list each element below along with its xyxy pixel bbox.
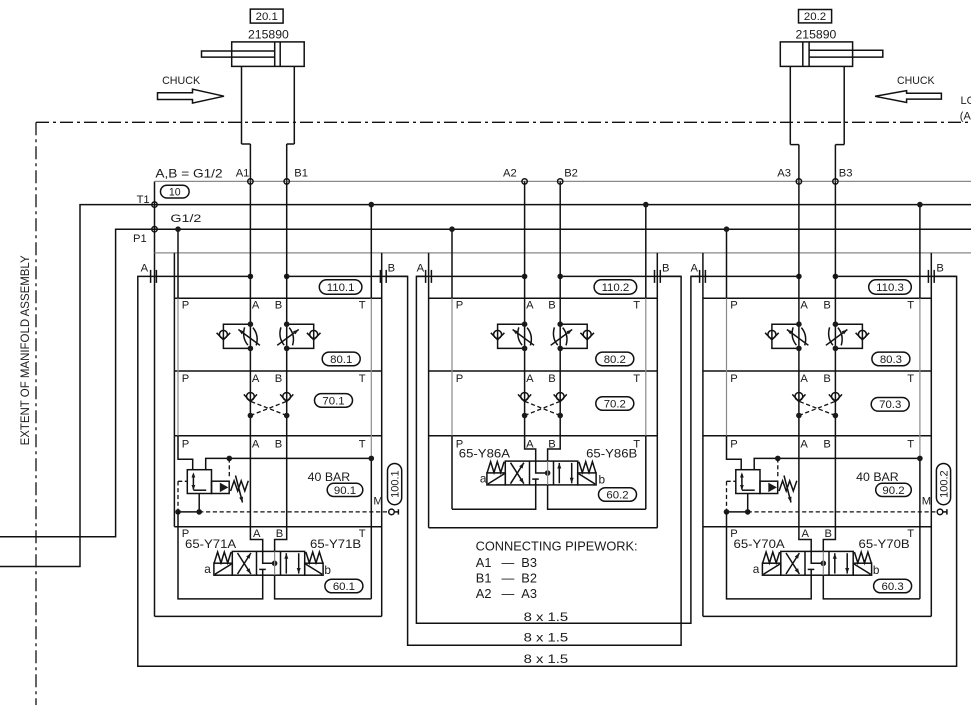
centre position blocked P port (532, 478, 539, 480)
gallery T1 (155, 204, 971, 206)
valve position boxes (232, 551, 304, 575)
svg-text:B3: B3 (521, 555, 537, 570)
pressure reducing valve body (187, 470, 211, 494)
solenoid 65-Y86B box (578, 473, 596, 485)
svg-text:100.2: 100.2 (938, 470, 950, 498)
pipe P1 to power unit (0, 229, 155, 537)
cylinder 20.2 mounting block (789, 66, 791, 144)
svg-text:80.2: 80.2 (604, 354, 626, 366)
cylinder 20.2 body (780, 42, 852, 67)
svg-text:G1/2: G1/2 (170, 213, 201, 225)
gallery B line block 2 (559, 181, 561, 435)
drain line to T gallery (206, 458, 372, 469)
svg-text:A2: A2 (503, 167, 517, 179)
svg-text:A: A (691, 262, 699, 274)
node A at block 2 (522, 274, 528, 280)
svg-text:8 x 1.5: 8 x 1.5 (524, 652, 569, 666)
svg-text:a: a (480, 472, 487, 486)
pilot operated check valve pair (792, 393, 842, 419)
svg-text:B: B (823, 373, 830, 385)
svg-text:100.1: 100.1 (390, 470, 402, 498)
svg-text:EXTENT OF MANIFOLD ASSEMBLY: EXTENT OF MANIFOLD ASSEMBLY (18, 255, 32, 445)
centre position blocked P port (808, 568, 815, 570)
svg-text:B: B (662, 262, 669, 274)
gallery T drop block 2 (645, 205, 647, 299)
manifold block 10 outline left edge (154, 181, 156, 616)
svg-text:A: A (252, 373, 260, 385)
solenoid 65-Y86A return spring (487, 462, 504, 473)
pilot line dashed cross (799, 401, 836, 415)
block 3 side port line A (691, 275, 799, 277)
gallery T inside block 1 (thin) (370, 298, 372, 458)
gallery T inside block 2 (thin) (645, 298, 647, 436)
supply jog from P gallery (178, 436, 193, 470)
valve block 110.2 enclosure (429, 253, 658, 528)
gallery A line block 1 (249, 181, 251, 526)
outlet node to P continuation (727, 511, 748, 513)
pilot line dashed cross (525, 401, 561, 415)
svg-text:b: b (599, 473, 606, 487)
svg-text:T: T (359, 373, 366, 385)
block 110.3 top edge (703, 297, 931, 299)
svg-text:A1: A1 (476, 555, 492, 570)
svg-text:B2: B2 (564, 167, 578, 179)
svg-text:110.1: 110.1 (327, 282, 355, 294)
svg-text:—: — (502, 586, 515, 601)
pilot line dashed cross (250, 401, 286, 415)
P supply pipe to valve (727, 527, 812, 599)
svg-text:60.1: 60.1 (333, 581, 355, 593)
pipe cylinder 20.2 port A to A3 (798, 145, 800, 182)
solenoid 65-Y71A return spring (214, 552, 231, 563)
item bubble 60.1 (325, 579, 363, 593)
block 3 wall coupling ticks B (927, 270, 929, 283)
item bubble 70.2 (596, 397, 634, 411)
solenoid 65-Y71B box (305, 563, 323, 575)
svg-text:M: M (373, 496, 382, 508)
svg-text:8 x 1.5: 8 x 1.5 (524, 631, 569, 645)
svg-text:B: B (823, 438, 830, 450)
svg-text:A: A (800, 373, 808, 385)
adjustable spring (779, 481, 797, 491)
solenoid 65-Y86A box (487, 473, 505, 485)
manifold face line ports A,B (155, 180, 971, 182)
svg-text:40 BAR: 40 BAR (856, 470, 899, 484)
svg-text:A: A (800, 300, 808, 312)
svg-text:B: B (275, 438, 282, 450)
svg-text:40 BAR: 40 BAR (308, 470, 351, 484)
svg-text:B1: B1 (476, 571, 492, 586)
pipe T1 to power unit (0, 205, 155, 567)
cylinder 20.1 rod (202, 51, 275, 57)
cylinder 20.2 piston (802, 42, 804, 67)
svg-text:B: B (275, 300, 282, 312)
solenoid 65-Y71A box (214, 563, 232, 575)
A neck jog to valve (799, 527, 811, 552)
svg-text:LOC: LOC (961, 95, 971, 107)
machine centreline horizontal (dash-dot) (36, 121, 971, 123)
svg-text:P: P (182, 438, 189, 450)
pilot sensing dashed line (727, 480, 736, 482)
pilot sensing dashed line (178, 480, 187, 482)
cylinder 20.2 rod (809, 50, 883, 57)
svg-text:B: B (548, 300, 555, 312)
item bubble 10 (161, 185, 190, 198)
gallery P inside block 2 (thin) (451, 298, 453, 436)
svg-text:T: T (633, 300, 640, 312)
position a crossed flow arrows (238, 553, 251, 574)
T return pipe from valve (275, 575, 372, 599)
svg-text:215890: 215890 (796, 27, 837, 41)
cylinder 20.1 body (232, 42, 305, 67)
pilot operated check valve pair (244, 393, 293, 419)
svg-text:B: B (276, 528, 283, 540)
cylinder 20.1 piston (274, 42, 276, 67)
block 110.3 section dividers (703, 370, 931, 372)
drain line to T gallery (754, 458, 920, 469)
P supply pipe to valve 60.2 (452, 479, 536, 509)
port M symbol (389, 509, 395, 515)
gallery P drop block 1 (177, 229, 179, 298)
node B at block 2 (557, 274, 563, 280)
reduced pressure outlet (198, 494, 200, 512)
centre position connections (263, 551, 275, 563)
gallery T inside block 3 (thin) (919, 298, 921, 458)
svg-text:80.3: 80.3 (880, 354, 902, 366)
svg-text:A1: A1 (236, 167, 250, 179)
position b parallel flow arrows (834, 553, 836, 573)
node A at block 3 (796, 274, 802, 280)
svg-text:110.3: 110.3 (876, 282, 904, 294)
svg-text:80.1: 80.1 (330, 354, 352, 366)
item bubble 60.3 (874, 579, 912, 593)
svg-text:B: B (388, 262, 395, 274)
gallery P1 (155, 228, 971, 230)
measuring line dashed to port M (748, 511, 938, 513)
svg-text:T: T (907, 438, 914, 450)
adjustable spring (231, 481, 249, 491)
pipe A2 to A3 (8 x 1.5) (416, 276, 699, 623)
svg-text:T: T (359, 438, 366, 450)
arrow chuck direction left cylinder (158, 89, 225, 103)
item bubble 90.1 (327, 483, 363, 496)
valve block 110.3 enclosure (703, 253, 931, 617)
item bubble 80.3 (872, 352, 910, 366)
svg-text:A: A (802, 528, 810, 540)
svg-text:CHUCK: CHUCK (162, 75, 201, 87)
block 3 wall coupling ticks A (699, 270, 701, 283)
position a crossed flow arrows (511, 463, 524, 484)
pipe cylinder 20.1 port A to A1 (249, 144, 251, 181)
manifold bottom edge (155, 615, 382, 617)
item bubble 110.3 (869, 280, 912, 294)
svg-text:10: 10 (169, 187, 181, 199)
svg-text:215890: 215890 (248, 27, 289, 41)
flow control with bypass check on line x=560.2 (551, 321, 594, 351)
svg-text:A: A (526, 300, 534, 312)
pilot box with solid triangle (212, 481, 230, 493)
solenoid 65-Y70A return spring (763, 552, 780, 563)
svg-text:65-Y70B: 65-Y70B (859, 537, 910, 551)
svg-text:65-Y86A: 65-Y86A (459, 447, 510, 461)
valve block 110.1 enclosure (174, 253, 381, 617)
svg-text:90.2: 90.2 (882, 485, 904, 497)
svg-text:A: A (141, 262, 149, 274)
A neck jog to valve 60.2 (525, 436, 536, 461)
flow control with bypass check on line x=835.4 (826, 321, 869, 351)
svg-text:A3: A3 (521, 586, 537, 601)
svg-text:B: B (275, 373, 282, 385)
svg-text:A3: A3 (777, 167, 791, 179)
svg-text:65-Y70A: 65-Y70A (734, 537, 785, 551)
svg-text:P: P (456, 373, 463, 385)
svg-text:8 x 1.5: 8 x 1.5 (524, 610, 569, 624)
T return pipe from valve (823, 575, 920, 599)
block 1 side port line B (287, 275, 408, 277)
svg-text:P: P (456, 300, 463, 312)
cylinder 20.1 mounting block (241, 66, 243, 144)
block 2 wall coupling ticks B (654, 270, 656, 283)
item bubble 70.1 (315, 394, 353, 408)
gallery A line block 2 (524, 181, 526, 435)
measuring line dashed to port M (199, 511, 389, 513)
item bubble 90.2 (876, 483, 912, 496)
svg-text:90.1: 90.1 (334, 485, 356, 497)
svg-text:T: T (907, 300, 914, 312)
block 1 side port line A (151, 275, 250, 277)
svg-text:B: B (823, 300, 830, 312)
pilot operated check valve pair (518, 393, 567, 419)
pilot box with solid triangle (760, 481, 778, 493)
svg-text:(AC: (AC (960, 110, 971, 122)
solenoid 65-Y70A box (762, 563, 780, 575)
flow control with bypass check on line x=286.7 (277, 321, 320, 351)
gallery T drop block 3 (919, 205, 921, 299)
svg-text:T: T (359, 300, 366, 312)
spring adjustment arrow (236, 476, 243, 503)
pressure reducing valve body (736, 470, 760, 494)
svg-text:T: T (907, 373, 914, 385)
position a crossed flow arrows (786, 553, 799, 574)
svg-text:M: M (922, 496, 931, 508)
valve position boxes (505, 461, 577, 485)
svg-text:20.2: 20.2 (804, 11, 826, 23)
svg-text:P1: P1 (133, 233, 147, 245)
item bubble 80.1 (322, 352, 360, 366)
centre position blocked P port (259, 568, 266, 570)
item bubble 60.2 (599, 488, 637, 502)
svg-text:A: A (417, 262, 425, 274)
svg-text:B: B (936, 262, 943, 274)
flow control with bypass check on line x=250.4 (217, 321, 260, 351)
gallery P drop block 3 (726, 229, 728, 298)
svg-text:110.2: 110.2 (602, 282, 630, 294)
port circle B2 (558, 179, 563, 184)
solenoid 65-Y71B return spring (306, 552, 323, 563)
P supply pipe to valve (178, 527, 263, 599)
block 2 side port line B (560, 275, 681, 277)
svg-text:65-Y71A: 65-Y71A (185, 537, 236, 551)
svg-text:A: A (252, 300, 260, 312)
svg-text:b: b (873, 563, 880, 577)
gallery B line block 1 (286, 181, 288, 526)
block 2 side port line A (416, 275, 524, 277)
svg-text:B: B (548, 373, 555, 385)
flow control with bypass check on line x=524.6 (491, 321, 534, 351)
spring adjustment arrow (784, 476, 791, 503)
block 1 wall coupling ticks A (150, 270, 152, 283)
svg-text:A: A (252, 438, 260, 450)
item bubble 100.2 rotated (936, 463, 950, 504)
gallery P drop block 2 (451, 229, 453, 298)
svg-text:A: A (800, 438, 808, 450)
solenoid 65-Y70B return spring (854, 552, 871, 563)
reducing valve internal flow arrow (192, 474, 194, 490)
block 1 wall coupling ticks B (379, 270, 381, 283)
pipe cylinder 20.1 port B to B1 (286, 144, 288, 181)
svg-text:B2: B2 (521, 571, 537, 586)
svg-text:70.1: 70.1 (322, 395, 344, 407)
centre position connections (811, 551, 823, 563)
gallery B line block 3 (834, 181, 836, 526)
cylinder 20.2 tag box (799, 10, 832, 23)
valve position boxes (781, 551, 853, 575)
item bubble 100.1 rotated (388, 464, 402, 505)
svg-text:b: b (324, 563, 331, 577)
svg-text:CONNECTING PIPEWORK:: CONNECTING PIPEWORK: (476, 539, 638, 554)
position b parallel flow arrows (285, 553, 287, 573)
svg-text:—: — (502, 555, 515, 570)
cylinder 20.1 tag box (250, 9, 283, 23)
svg-text:60.3: 60.3 (882, 581, 904, 593)
svg-text:A: A (526, 373, 534, 385)
solenoid 65-Y70B box (853, 563, 871, 575)
reduced pressure outlet (747, 494, 749, 512)
svg-text:65-Y86B: 65-Y86B (586, 447, 637, 461)
gallery A line block 3 (798, 181, 800, 526)
port circle A3 (796, 179, 801, 184)
port circle B1 (284, 179, 289, 184)
pipe cylinder 20.2 port B to B3 (834, 145, 836, 182)
svg-text:CHUCK: CHUCK (897, 75, 935, 87)
gallery P inside block 3 (thin) (726, 298, 728, 436)
block 2 wall coupling ticks A (425, 270, 427, 283)
port circle B3 (833, 179, 838, 184)
block 3 side port line B (835, 275, 956, 277)
svg-text:B3: B3 (839, 167, 853, 179)
svg-text:70.3: 70.3 (879, 399, 901, 411)
item bubble 70.3 (871, 398, 909, 412)
node B at block 3 (833, 274, 839, 280)
svg-text:60.2: 60.2 (606, 489, 628, 501)
item bubble 110.2 (594, 280, 637, 294)
svg-text:65-Y71B: 65-Y71B (310, 537, 361, 551)
pipe B1 to B2 (8 x 1.5) (387, 276, 682, 645)
svg-text:P: P (730, 300, 737, 312)
node A at block 1 (248, 274, 254, 280)
block 110.2 section dividers (429, 370, 658, 372)
svg-text:—: — (502, 571, 515, 586)
B neck jog to valve (823, 527, 835, 552)
item bubble 80.2 (596, 352, 634, 366)
B neck jog to valve 60.2 (548, 436, 561, 461)
gallery T drop block 1 (370, 205, 372, 299)
svg-text:a: a (204, 562, 211, 576)
svg-text:P: P (182, 300, 189, 312)
svg-text:B: B (825, 528, 832, 540)
port M symbol (937, 509, 943, 515)
svg-text:A2: A2 (476, 586, 492, 601)
block 110.1 section dividers (174, 370, 381, 372)
port circle A1 (248, 179, 253, 184)
manifold internal face line (155, 252, 971, 254)
svg-text:P: P (730, 373, 737, 385)
svg-text:70.2: 70.2 (604, 398, 626, 410)
T return pipe from valve 60.2 (548, 485, 646, 509)
svg-text:T: T (633, 373, 640, 385)
centre position connections (536, 461, 548, 473)
svg-text:A: A (253, 528, 261, 540)
position b parallel flow arrows (558, 463, 560, 483)
svg-text:P: P (730, 438, 737, 450)
manifold extent boundary vertical (dash-dot) (35, 122, 37, 705)
node B at block 1 (284, 274, 290, 280)
solenoid 65-Y86B return spring (579, 462, 596, 473)
A neck jog to valve (250, 527, 262, 552)
svg-text:B1: B1 (294, 167, 308, 179)
B neck jog to valve (275, 527, 287, 552)
outlet node to P continuation (178, 511, 199, 513)
block 110.1 top edge (174, 297, 381, 299)
svg-text:a: a (753, 562, 760, 576)
gallery P inside block 1 (thin) (177, 298, 179, 436)
drain pilot dashed (228, 458, 230, 478)
arrow chuck direction right cylinder (875, 91, 941, 103)
svg-text:P: P (182, 373, 189, 385)
svg-text:A,B = G1/2: A,B = G1/2 (155, 168, 222, 181)
port circle A2 (522, 179, 527, 184)
drain pilot dashed (777, 458, 779, 478)
supply jog from P gallery (727, 436, 742, 470)
flow control with bypass check on line x=798.9 (765, 321, 808, 351)
svg-text:20.1: 20.1 (256, 11, 278, 23)
item bubble 110.1 (319, 280, 362, 294)
pipe A1 to B3 (8 x 1.5) (138, 276, 957, 666)
reducing valve internal flow arrow (741, 474, 743, 490)
block 110.2 top edge (429, 297, 658, 299)
